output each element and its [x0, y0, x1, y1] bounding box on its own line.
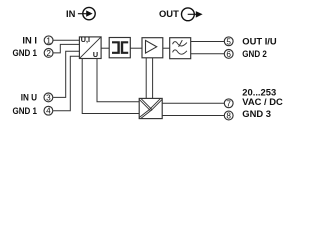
- svg-text:IN U: IN U: [21, 92, 37, 103]
- svg-text:U: U: [93, 50, 98, 59]
- IN icon arrowhead: [86, 10, 92, 16]
- svg-text:VAC / DC: VAC / DC: [242, 96, 283, 107]
- wire U1 to PS1 outer run: [82, 59, 139, 114]
- PS1 isolation arm bottom-left: [139, 109, 152, 119]
- terminal 5: [224, 37, 233, 46]
- svg-text:8: 8: [226, 112, 231, 121]
- svg-text:GND 1: GND 1: [13, 47, 38, 58]
- filter F1 box: [170, 38, 191, 59]
- wire terminal1 to U1: [53, 39, 79, 41]
- svg-text:4: 4: [46, 107, 51, 116]
- terminal 4: [44, 106, 53, 115]
- wire F1 to terminal5: [191, 41, 225, 43]
- power supply PS1 box: [139, 98, 162, 118]
- svg-text:6: 6: [226, 50, 231, 59]
- svg-text:7: 7: [226, 99, 231, 108]
- svg-text:GND 2: GND 2: [242, 48, 266, 59]
- terminal 8: [224, 111, 233, 120]
- svg-text:GND 1: GND 1: [13, 105, 38, 116]
- PS1 isolation arm top-right: [150, 99, 162, 111]
- wire T1 to A1: [130, 47, 142, 49]
- wire U1 to PS1 inner run: [97, 59, 139, 102]
- svg-text:IN I: IN I: [22, 34, 37, 45]
- terminal 1: [44, 36, 53, 45]
- wire PS1 feed to A1 left: [145, 58, 147, 99]
- IN icon circle: [83, 7, 95, 19]
- svg-text:U,I: U,I: [81, 35, 90, 44]
- terminal 7: [224, 99, 233, 108]
- wire U1 to T1: [101, 47, 109, 49]
- svg-text:GND 3: GND 3: [242, 108, 271, 119]
- wire PS1 to terminal7: [162, 102, 224, 104]
- wire PS1 feed to A1 right: [152, 58, 154, 99]
- amplifier A1 box: [142, 38, 163, 58]
- wire PS1 to terminal8: [162, 115, 224, 117]
- wire F1 to terminal6: [191, 53, 225, 55]
- OUT icon arrowhead: [196, 11, 203, 18]
- OUT icon wire: [188, 13, 197, 15]
- OUT icon circle: [182, 8, 195, 21]
- svg-text:1: 1: [46, 36, 51, 45]
- terminal 3: [44, 93, 53, 102]
- transformer T1 box: [109, 38, 130, 58]
- wire terminal2 to U1: [53, 44, 79, 53]
- svg-text:2: 2: [46, 49, 51, 58]
- svg-text:5: 5: [226, 37, 231, 46]
- terminal 2: [44, 49, 53, 58]
- wire A1 to F1: [163, 47, 170, 49]
- PS1 isolation arm top-left: [139, 99, 151, 111]
- svg-text:OUT: OUT: [159, 8, 179, 19]
- input converter U1 box: [79, 35, 101, 59]
- terminal 6: [224, 50, 233, 59]
- svg-text:IN: IN: [66, 8, 76, 19]
- svg-text:3: 3: [46, 93, 51, 102]
- svg-text:OUT I/U: OUT I/U: [242, 35, 277, 46]
- wire terminal3 to U1: [53, 51, 79, 97]
- IN icon wire: [78, 13, 87, 15]
- wire terminal4 to U1: [53, 56, 79, 110]
